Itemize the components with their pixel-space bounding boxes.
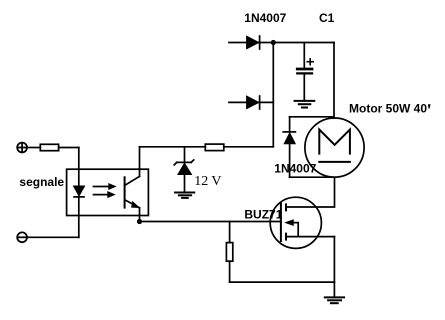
ground (zener) <box>175 193 194 198</box>
phototransistor collector <box>125 147 140 186</box>
wire bridge vertical <box>272 43 274 147</box>
wire flyback diode cathode lead <box>289 117 291 132</box>
wire AC input bottom to diode D2 <box>229 101 273 103</box>
MOSFET drain tick <box>285 204 287 210</box>
node dot emitter/gate <box>137 219 142 224</box>
optocoupler U1 box <box>67 169 149 215</box>
wire LED cathode lead <box>78 197 80 237</box>
wire R1 to LED <box>59 147 79 149</box>
wire AC input top to diode D1 <box>229 42 334 44</box>
MOSFET gate bar <box>280 203 282 241</box>
phototransistor emitter with arrow <box>125 200 140 222</box>
wire 12V rail right <box>224 146 273 148</box>
svg-text:1N4007: 1N4007 <box>274 162 316 176</box>
wire 12V rail left <box>140 146 206 148</box>
resistor R2 supply <box>205 144 224 151</box>
wire zener lead bottom <box>184 175 186 193</box>
wire flyback diode top <box>290 116 334 118</box>
zener diode Z1 <box>174 160 194 175</box>
svg-text:BUZ71: BUZ71 <box>244 207 282 221</box>
terminal + <box>17 143 27 153</box>
capacitor C1 plates <box>297 69 312 73</box>
wire source to right <box>286 236 334 238</box>
wire gate resistor bottom to source node <box>230 281 335 283</box>
wire gate line <box>140 221 281 223</box>
wire motor bottom loop <box>286 177 335 207</box>
svg-text:Motor 50W 40: Motor 50W 40 <box>349 102 427 116</box>
wire motor feed vertical <box>333 43 335 119</box>
MOSFET body arrow <box>286 220 299 237</box>
diode D3 1N4007 flyback <box>283 132 295 144</box>
wire zener lead top <box>184 147 186 163</box>
svg-text:12 V: 12 V <box>194 174 221 189</box>
ground (source) <box>325 297 344 303</box>
plus sign of C1 <box>307 59 313 65</box>
wire capacitor bottom <box>303 75 305 101</box>
resistor R3 gate pulldown <box>226 243 232 262</box>
node dot bridge output <box>271 40 276 45</box>
svg-text:C1: C1 <box>319 11 335 25</box>
motor M glyph <box>319 130 350 162</box>
MOSFET source tick <box>285 234 287 240</box>
wire source down to ground <box>333 237 335 298</box>
terminal - <box>17 232 27 242</box>
wire + to R1 <box>27 147 40 149</box>
motor M1 circle <box>305 118 364 177</box>
LED of optocoupler <box>74 186 85 197</box>
opto arrow 2 <box>94 192 115 198</box>
ground (capacitor) <box>295 101 315 108</box>
svg-text:1N4007: 1N4007 <box>244 11 286 25</box>
wire flyback diode anode lead <box>289 144 291 177</box>
resistor R1 input <box>40 144 58 150</box>
diode D2 1N4007 bottom <box>247 96 260 109</box>
opto arrow 1 <box>94 184 116 190</box>
wire gate resistor bottom lead <box>229 261 231 282</box>
wire - to LED cathode <box>27 236 79 238</box>
wire LED anode lead <box>78 148 80 187</box>
wire gate resistor top lead <box>229 222 231 243</box>
MOSFET Q1 circle <box>270 197 321 248</box>
diode D1 1N4007 top <box>247 36 260 49</box>
phototransistor base bar <box>124 177 126 207</box>
wire capacitor branch top <box>303 43 305 68</box>
svg-text:segnale: segnale <box>19 175 64 189</box>
